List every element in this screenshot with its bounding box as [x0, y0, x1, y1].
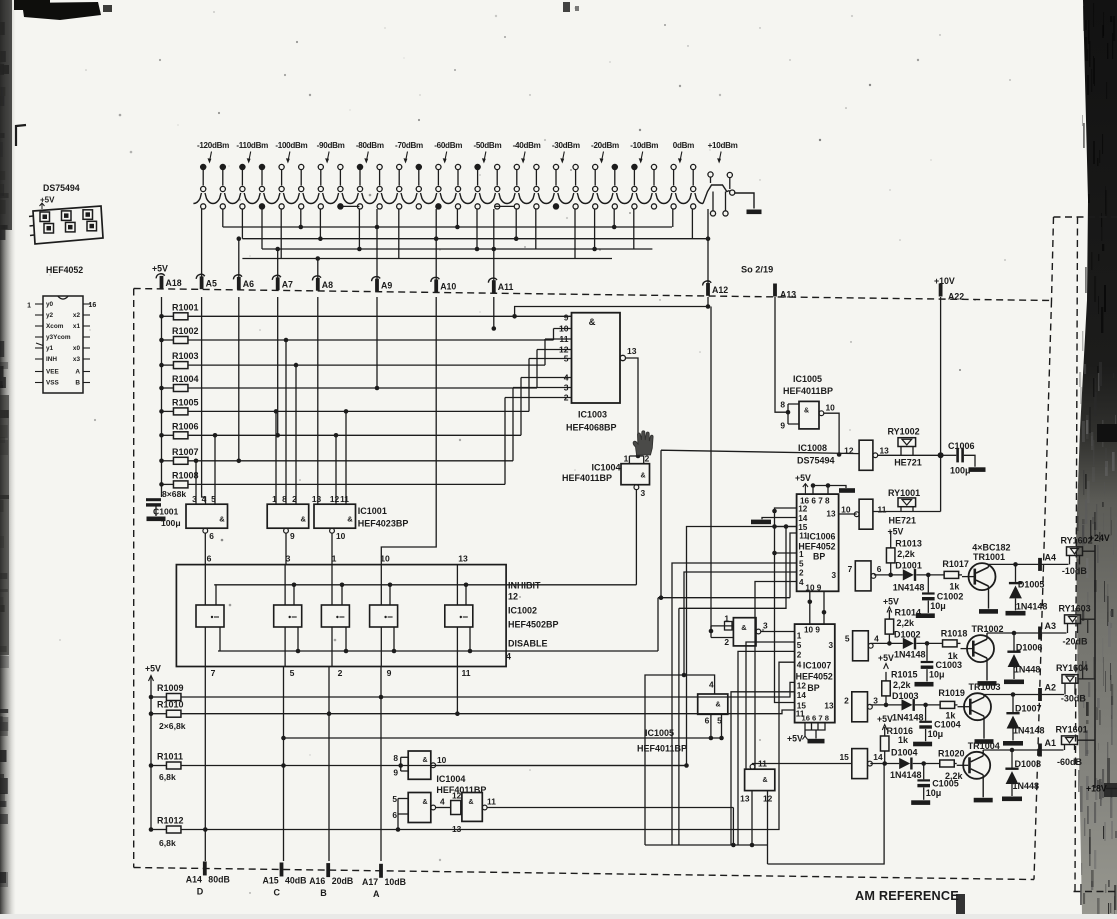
- relay RY1002: [888, 427, 922, 468]
- wire IC1004a output to INHIBIT line: [635, 490, 637, 585]
- IC1005 gate c (pin4 -> 6,5): [698, 680, 728, 726]
- IC1002 bottom pin labels: [211, 668, 471, 678]
- wire bottom mesh line: [645, 844, 768, 846]
- wire stage B node: [871, 642, 903, 644]
- svg-text:+5V: +5V: [888, 527, 904, 537]
- wire A12 branch down to gate IC1005a: [710, 307, 712, 632]
- wire switch output drop: [280, 209, 282, 259]
- relay RY1601: [1056, 724, 1088, 750]
- switch S7 contacts: [436, 164, 461, 191]
- svg-text:10μ: 10μ: [930, 601, 946, 611]
- switch S4 contacts: [318, 164, 343, 191]
- junction: [299, 225, 304, 230]
- svg-text:IC1005: IC1005: [645, 728, 674, 738]
- svg-text:R1013: R1013: [895, 539, 922, 549]
- svg-text:A7: A7: [282, 279, 293, 289]
- svg-text:6,8k: 6,8k: [159, 772, 176, 782]
- svg-text:3: 3: [641, 488, 646, 498]
- resistor R1012: [151, 816, 184, 834]
- svg-text:&: &: [219, 515, 225, 524]
- wire disable stub: [345, 627, 347, 651]
- wire mesh horizontal L2: [242, 238, 708, 240]
- dashed enclosure bottom border: [134, 868, 1034, 880]
- switch S8 contacts: [475, 164, 500, 191]
- wire IC1005d output to driver D: [753, 763, 852, 766]
- svg-text:A8: A8: [322, 280, 333, 290]
- svg-text:A3: A3: [1045, 621, 1057, 631]
- connector A3: [1038, 621, 1056, 640]
- svg-text:+5V: +5V: [883, 597, 899, 607]
- junction: [149, 827, 154, 832]
- svg-text:R1008: R1008: [172, 470, 199, 480]
- right edge scan band: [1076, 0, 1117, 919]
- transistor TR1001: [959, 552, 1005, 590]
- wire switch output drop: [319, 209, 321, 239]
- svg-text:1: 1: [799, 550, 804, 559]
- wire y597 vertical x678: [678, 608, 680, 845]
- connector A6: [233, 275, 254, 290]
- wire R1006 to IC1003 pin 4: [188, 434, 521, 436]
- connector A11: [488, 278, 513, 293]
- resistor R1005: [162, 397, 199, 415]
- ground at TR1001 emitter: [979, 609, 998, 614]
- svg-text:&: &: [715, 702, 720, 709]
- wire bridge between contacts 2: [495, 205, 514, 207]
- diode D1008: [1005, 748, 1041, 796]
- junction: [612, 225, 617, 230]
- svg-text:5: 5: [799, 560, 804, 569]
- wire R1010 line to IC1007 pin11: [181, 710, 795, 714]
- svg-text:-20dBm: -20dBm: [591, 141, 619, 150]
- wire TR1001 emitter: [988, 586, 990, 609]
- svg-text:1N4148: 1N4148: [892, 713, 924, 723]
- wire inhibit stub: [389, 585, 391, 605]
- wire switch output drop: [613, 209, 615, 227]
- svg-text:A15: A15: [263, 875, 279, 885]
- wire IC1007 pin5 line: [746, 642, 795, 769]
- svg-text:14: 14: [797, 691, 807, 700]
- svg-text:IC1001: IC1001: [358, 506, 387, 516]
- junction: [592, 247, 597, 252]
- relay RY1001: [888, 488, 921, 537]
- IC1002 flip-flop element 2: [274, 565, 302, 667]
- svg-text:Xcom: Xcom: [46, 323, 64, 330]
- switch S8 selector arrow: [484, 152, 486, 162]
- svg-text:7: 7: [848, 564, 853, 574]
- wire switch output drop: [222, 209, 224, 227]
- svg-text:-90dBm: -90dBm: [317, 141, 345, 150]
- junction: [159, 314, 164, 319]
- IC HEF4052 pinout diagram: [27, 265, 96, 393]
- wire drop to A12: [707, 209, 709, 283]
- IC1002 flip-flop element 1: [196, 565, 224, 667]
- switch S7 selector arrow: [445, 152, 447, 162]
- IC1002 flip-flop element 5: [445, 565, 473, 667]
- svg-text:1N4148: 1N4148: [890, 770, 922, 780]
- ground at TR1003 emitter: [975, 739, 994, 744]
- resistor R1017: [942, 559, 969, 592]
- svg-text:1N4148: 1N4148: [893, 583, 925, 593]
- switch S9 contacts: [514, 164, 539, 191]
- svg-text:VSS: VSS: [46, 380, 60, 387]
- svg-text:D1004: D1004: [891, 748, 918, 758]
- wire R1001 to IC1003 pin 9: [188, 315, 572, 317]
- svg-text:y1: y1: [46, 345, 54, 352]
- resistor R1002: [162, 326, 199, 344]
- wire inhibit stub: [465, 585, 467, 605]
- svg-text:RY1002: RY1002: [888, 427, 920, 437]
- svg-text:2,2k: 2,2k: [897, 618, 916, 628]
- svg-text:13: 13: [627, 346, 637, 356]
- resistor R1011: [151, 752, 183, 770]
- wire D output line: [983, 749, 1063, 751]
- svg-text:A5: A5: [206, 278, 217, 288]
- diode D1007: [1006, 692, 1044, 740]
- wire IC1003 output to IC1004a: [626, 358, 644, 464]
- wire switch output drop: [300, 209, 302, 227]
- svg-text:R1006: R1006: [172, 421, 199, 431]
- svg-text:HE721: HE721: [889, 516, 917, 526]
- +5V at IC1007 bottom: [787, 734, 808, 744]
- svg-text:A11: A11: [498, 282, 514, 292]
- svg-text:5: 5: [211, 494, 216, 504]
- svg-text:10: 10: [826, 403, 836, 413]
- dashed enclosure left border: [133, 289, 135, 868]
- svg-text:10dB: 10dB: [385, 877, 407, 887]
- junction: [159, 338, 164, 343]
- svg-text:6: 6: [705, 716, 710, 726]
- svg-text:3: 3: [828, 641, 833, 650]
- connector A13: [773, 284, 796, 300]
- svg-text:IC1005: IC1005: [793, 374, 822, 384]
- wire A12 loop to IC1003 pin 9: [515, 297, 708, 316]
- svg-text:13: 13: [880, 446, 890, 456]
- svg-text:10: 10: [559, 324, 569, 334]
- ground at D1005: [1006, 611, 1026, 616]
- diode D1006: [1007, 631, 1042, 679]
- ground at TR1004 emitter: [974, 798, 993, 803]
- svg-text:14: 14: [798, 514, 808, 523]
- svg-text:D: D: [197, 886, 204, 896]
- resistor R1001: [162, 302, 199, 320]
- svg-text:12: 12: [330, 494, 340, 504]
- wire y608 line: [679, 527, 786, 609]
- svg-text:9: 9: [387, 668, 392, 678]
- svg-text:1: 1: [27, 303, 31, 310]
- wire TR1003 collector: [983, 695, 985, 698]
- IC1005 gate d (pins 13,12 -> 11): [740, 759, 775, 804]
- svg-text:16 6 7 8: 16 6 7 8: [802, 714, 829, 723]
- +5V at IC1006: [795, 473, 811, 494]
- wire inhibit stub: [215, 585, 217, 605]
- svg-text:RY1001: RY1001: [888, 488, 920, 498]
- IC1008 driver 2 (10 -> 11): [839, 499, 887, 529]
- diode D1002: [894, 630, 926, 660]
- wire switch output drop: [535, 209, 537, 249]
- svg-text:HEF4068BP: HEF4068BP: [566, 423, 617, 433]
- wire TR1002 collector: [986, 633, 988, 639]
- wire inhibit stub: [293, 585, 295, 605]
- svg-text:3: 3: [763, 621, 768, 631]
- wire IC1001 pin 1: [275, 411, 277, 504]
- wire bottom route to stage D junction: [768, 764, 885, 865]
- relay RY1604: [1056, 663, 1088, 694]
- wire mesh horizontal L3: [262, 248, 652, 250]
- wire DISABLE continuation: [658, 533, 797, 651]
- wire R1009 line to IC1007 pin12: [181, 682, 795, 697]
- switch S2 contacts: [240, 164, 265, 191]
- svg-text:5: 5: [392, 794, 397, 804]
- wire A13 to IC1005b: [775, 297, 799, 424]
- svg-text:2: 2: [292, 494, 297, 504]
- svg-text:1: 1: [272, 494, 277, 504]
- left edge scan artifact: [0, 0, 16, 914]
- svg-text:-120dBm: -120dBm: [197, 141, 229, 150]
- connector A14: [186, 861, 230, 896]
- svg-text:11: 11: [878, 505, 887, 515]
- connector A16: [309, 863, 353, 898]
- svg-text:HEF4502BP: HEF4502BP: [508, 620, 559, 630]
- connector A15: [263, 862, 307, 897]
- svg-text:+5V: +5V: [878, 653, 894, 663]
- svg-text:So 2/19: So 2/19: [741, 265, 773, 275]
- svg-text:1N448: 1N448: [1013, 781, 1040, 791]
- svg-text:-100dBm: -100dBm: [275, 141, 307, 150]
- wire R1008 to IC1003 pin 2: [188, 483, 505, 485]
- svg-text:3: 3: [286, 554, 291, 564]
- wire IC1006 pin1 line: [775, 552, 797, 554]
- svg-text:HE721: HE721: [894, 458, 922, 468]
- svg-text:RY1604: RY1604: [1056, 663, 1088, 673]
- svg-text:2,2k: 2,2k: [897, 549, 916, 559]
- svg-text:RY1601: RY1601: [1056, 724, 1088, 734]
- wire IC1001 pin 12: [335, 435, 337, 504]
- IC1002 top pin labels: [207, 554, 468, 564]
- wire A9 line: [376, 297, 378, 388]
- switch S14 selector arrow: [719, 152, 721, 162]
- wire C output line: [984, 694, 1064, 696]
- resistor R1003: [162, 351, 199, 369]
- wire switch output drop: [358, 209, 360, 249]
- svg-text:+18V: +18V: [1086, 784, 1107, 794]
- wire IC1005a inputs: [711, 626, 733, 638]
- wire disable stub: [297, 627, 299, 651]
- wire stage D node: [870, 763, 899, 765]
- svg-text:1: 1: [332, 554, 337, 564]
- svg-text:INH: INH: [46, 356, 57, 363]
- IC1004 gate b (pins 8,9 -> 10): [393, 751, 446, 779]
- svg-text:&: &: [422, 757, 427, 764]
- svg-text:6: 6: [207, 554, 212, 564]
- wire IC1006 top pins to ground: [813, 486, 846, 495]
- IC1008 driver B: [845, 631, 879, 661]
- wire +5V bus: [161, 297, 163, 497]
- capacitor C1001: [146, 498, 181, 528]
- svg-text:A14: A14: [186, 874, 202, 884]
- wire switch output drop: [398, 209, 400, 259]
- svg-text:10: 10: [841, 505, 851, 515]
- svg-text:10: 10: [380, 554, 390, 564]
- svg-text:-20dB: -20dB: [1063, 637, 1089, 647]
- svg-text:y3Ycom: y3Ycom: [46, 334, 71, 341]
- svg-text:A4: A4: [1045, 552, 1057, 562]
- connector A17: [362, 864, 406, 899]
- svg-text:D1006: D1006: [1016, 643, 1043, 653]
- transistor TR1003: [955, 682, 1001, 720]
- svg-text:AM REFERENCE: AM REFERENCE: [855, 889, 959, 903]
- wire IC1005c pins 6,5 down: [710, 714, 712, 738]
- svg-text:RY1602: RY1602: [1061, 535, 1093, 545]
- svg-text:16: 16: [89, 302, 97, 309]
- svg-text:A16: A16: [309, 876, 325, 886]
- wire disable stub: [469, 627, 471, 651]
- svg-text:10μ: 10μ: [929, 669, 945, 679]
- svg-text:5: 5: [290, 668, 295, 678]
- svg-text:8×68k: 8×68k: [162, 489, 186, 499]
- connector A5: [196, 274, 217, 289]
- svg-text:x2: x2: [73, 312, 81, 319]
- svg-text:1: 1: [797, 632, 802, 641]
- switch S9 selector arrow: [523, 152, 525, 162]
- diode D1003: [892, 691, 924, 723]
- wire stage C node: [870, 704, 901, 706]
- wire switch output drop: [691, 209, 693, 239]
- svg-text:3: 3: [873, 696, 878, 706]
- switch common bus scalloped wire: [193, 193, 703, 204]
- wire IC1004d output long line: [487, 807, 733, 809]
- svg-text:4: 4: [440, 797, 445, 807]
- switch bus raised bridge at S14: [703, 185, 730, 204]
- svg-text:8: 8: [393, 753, 398, 763]
- IC1002 flip-flop element 4: [370, 565, 398, 667]
- svg-text:DISABLE: DISABLE: [508, 639, 548, 649]
- wire drop to A11: [493, 209, 495, 283]
- switch S3 contacts: [279, 164, 304, 191]
- svg-text:+5V: +5V: [877, 714, 893, 724]
- resistor R1014: [883, 597, 921, 644]
- connector A22: [939, 284, 965, 302]
- svg-text:6: 6: [209, 531, 214, 541]
- IC1007 bottom pins: [805, 723, 825, 736]
- svg-text:15: 15: [839, 752, 849, 762]
- wire drop to A10: [435, 209, 437, 283]
- svg-text:2: 2: [844, 696, 849, 706]
- switch S2 selector arrow: [249, 152, 251, 162]
- svg-text:1k: 1k: [945, 710, 956, 720]
- IC1006 HEF4052BP: [797, 494, 839, 592]
- resistor R1019: [938, 688, 965, 721]
- svg-text:+10dBm: +10dBm: [708, 141, 738, 150]
- IC1007 HEF4052BP: [795, 624, 835, 723]
- svg-text:C: C: [274, 887, 281, 897]
- svg-text:-60dBm: -60dBm: [434, 141, 462, 150]
- wire relay RY1601 to rail: [1078, 739, 1096, 741]
- svg-text:&: &: [741, 623, 747, 632]
- connector A1: [1038, 738, 1056, 757]
- connector A4: [1038, 552, 1056, 571]
- svg-text:C1001: C1001: [153, 507, 179, 517]
- wire IC1006 pin5 line: [672, 563, 797, 845]
- svg-text:-30dB: -30dB: [1061, 694, 1087, 704]
- svg-text:2: 2: [797, 651, 802, 660]
- junction: [318, 236, 323, 241]
- svg-text:HEF4011BP: HEF4011BP: [783, 386, 833, 396]
- svg-text:11: 11: [559, 334, 568, 344]
- wire IC1004b output line: [436, 765, 687, 767]
- svg-text:A10: A10: [440, 281, 456, 291]
- svg-text:-10dB: -10dB: [1062, 566, 1088, 576]
- IC1001 gate at x=186: [186, 494, 228, 565]
- svg-text:TR1001: TR1001: [973, 552, 1005, 562]
- wire +10V rail from A22: [940, 297, 942, 512]
- svg-text:HEF4011BP: HEF4011BP: [562, 473, 612, 483]
- top-left corner blot: [14, 0, 112, 20]
- wire R1002 to IC1003 pin 10: [188, 339, 554, 341]
- svg-text:C1002: C1002: [937, 591, 964, 601]
- svg-text:-80dBm: -80dBm: [356, 141, 384, 150]
- svg-text:2×6,8k: 2×6,8k: [159, 721, 186, 731]
- svg-text:40dB: 40dB: [285, 875, 307, 885]
- svg-text:2: 2: [799, 569, 804, 578]
- junction: [159, 459, 164, 464]
- svg-text:A: A: [373, 889, 380, 899]
- svg-text:10μ: 10μ: [928, 729, 944, 739]
- svg-text:HEF4052: HEF4052: [796, 672, 833, 682]
- IC1002 side labels: [506, 581, 559, 662]
- wire TR1004 collector: [982, 750, 984, 756]
- svg-text:3: 3: [564, 383, 569, 393]
- svg-text:4×BC182: 4×BC182: [972, 543, 1010, 553]
- switch S12 selector arrow: [641, 152, 643, 162]
- svg-text:3: 3: [192, 494, 197, 504]
- hand cursor artifact: [633, 431, 653, 455]
- svg-text:4: 4: [506, 652, 511, 662]
- capacitor C1003: [921, 641, 962, 681]
- svg-text:IC1008: IC1008: [798, 443, 827, 453]
- svg-text:-60dB: -60dB: [1057, 757, 1083, 767]
- svg-text:VEE: VEE: [46, 369, 60, 376]
- connector A8: [312, 276, 333, 291]
- ground at C1006: [969, 467, 986, 472]
- svg-text:1N4148: 1N4148: [1013, 726, 1045, 736]
- svg-text:2: 2: [338, 668, 343, 678]
- bottom-left page mark: [956, 894, 965, 914]
- switch S1 contacts: [201, 164, 226, 191]
- svg-text:+10V: +10V: [934, 276, 955, 286]
- svg-text:4: 4: [874, 634, 879, 644]
- wire relay RY1604 to rail: [1078, 678, 1095, 680]
- IC1001 gate at x=267.2: [267, 494, 309, 565]
- svg-text:&: &: [422, 799, 427, 806]
- dashed enclosure right border: [1034, 301, 1052, 880]
- switch S4 selector arrow: [327, 152, 329, 162]
- ground at C1001: [147, 517, 166, 522]
- capacitor C1005: [917, 761, 958, 800]
- wire TR1004 emitter: [982, 775, 984, 798]
- junction: [159, 482, 164, 487]
- svg-text:1N448: 1N448: [1014, 665, 1041, 675]
- svg-text:IC1006: IC1006: [807, 532, 835, 542]
- svg-text:&: &: [468, 799, 473, 806]
- svg-text:R1014: R1014: [895, 608, 922, 618]
- switch S11 contacts: [593, 164, 618, 191]
- svg-text:1k: 1k: [898, 735, 909, 745]
- svg-text:+24V: +24V: [1089, 533, 1110, 543]
- IC1004 gate c (pins 5,6 -> 4): [392, 793, 445, 830]
- switch S14 contacts: [708, 172, 733, 189]
- svg-text:10 9: 10 9: [805, 584, 821, 593]
- svg-text:13: 13: [740, 794, 750, 804]
